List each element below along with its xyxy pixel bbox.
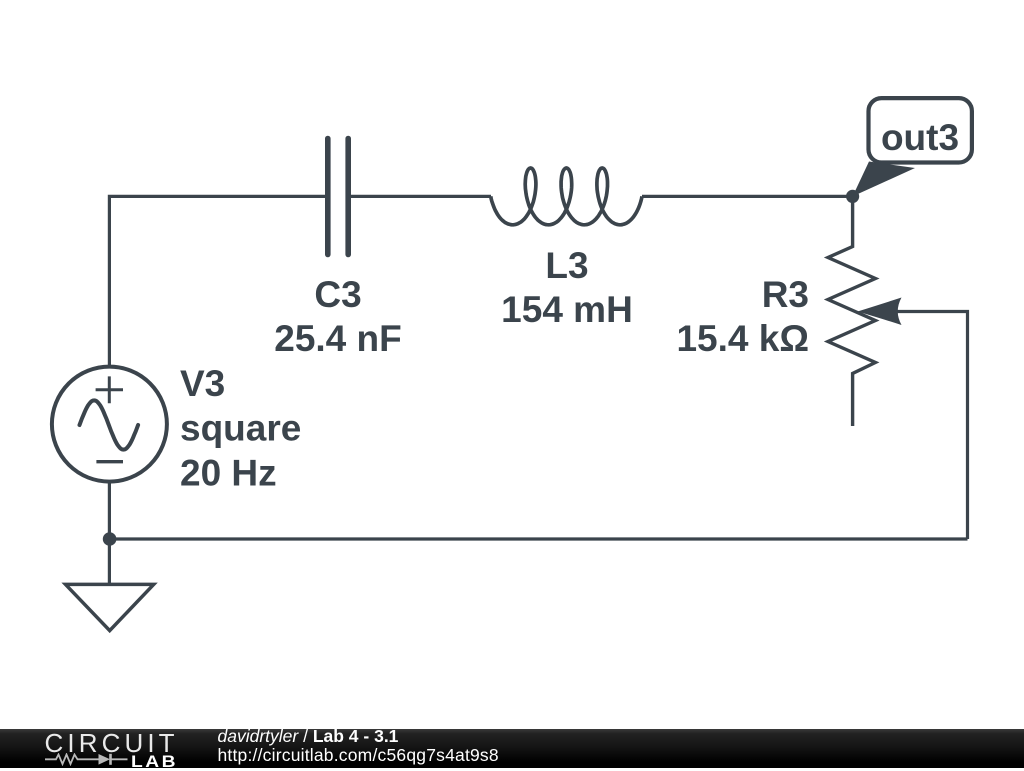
V3 sine symbol [80, 400, 139, 449]
title line: davidrtyler / Lab 4 - 3.1 [218, 728, 399, 746]
wire: L3 to node out3 [642, 195, 853, 198]
CircuitLab logo text LAB [131, 753, 178, 770]
inductor L3 [491, 168, 642, 225]
wire: V3 bottom to ground [108, 480, 111, 584]
CircuitLab logo glyph (resistor + diode) [45, 753, 130, 766]
junction dot bottom left [103, 532, 117, 546]
svg-text:R3: R3 [762, 274, 809, 315]
svg-text:L3: L3 [545, 245, 588, 286]
junction dot at node out3 [846, 190, 859, 203]
wire: bottom rail [109, 537, 967, 540]
CircuitLab logo text CIRCUIT [45, 730, 179, 756]
resistor R3 (rheostat body) [828, 196, 875, 426]
voltage source V3 circle [52, 367, 167, 482]
wire: R3 wiper to right rail and bottom rail [894, 312, 968, 540]
svg-text:V3: V3 [180, 363, 225, 404]
out3 flag tail [853, 162, 915, 197]
wire left: V3 top terminal up and right to C3 [109, 196, 326, 368]
svg-text:15.4 kΩ: 15.4 kΩ [676, 318, 809, 359]
V3 plus sign [96, 376, 123, 403]
R3 wiper arrowhead [858, 298, 902, 326]
ground symbol [66, 584, 154, 630]
out3 flag box [869, 98, 972, 162]
wire: C3 to L3 [348, 195, 491, 198]
capacitor C3 [328, 139, 348, 255]
url line [218, 747, 499, 765]
svg-text:25.4 nF: 25.4 nF [274, 318, 402, 359]
footer bar [0, 729, 1024, 768]
svg-text:out3: out3 [881, 117, 959, 158]
svg-text:square: square [180, 408, 301, 449]
svg-text:C3: C3 [314, 274, 361, 315]
svg-text:154 mH: 154 mH [501, 289, 633, 330]
V3 minus sign [96, 460, 123, 463]
svg-text:20 Hz: 20 Hz [180, 452, 277, 493]
